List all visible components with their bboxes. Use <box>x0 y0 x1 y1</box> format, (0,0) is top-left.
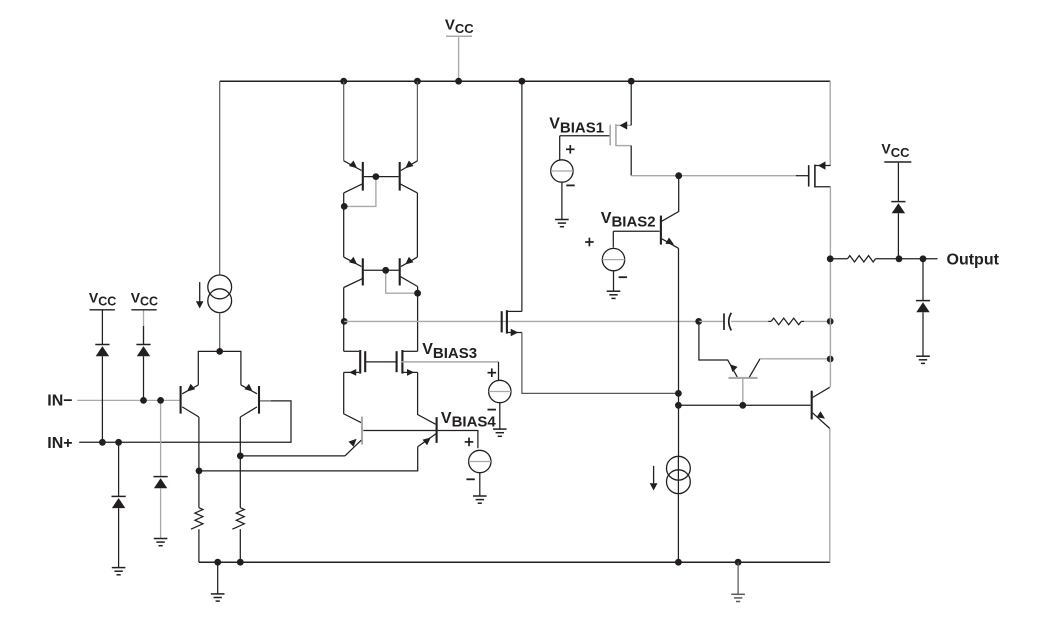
transistor Q1 (PNP input left) <box>180 386 182 414</box>
current source I2 <box>667 456 691 480</box>
wire VBIAS2 base lead <box>613 230 659 232</box>
wire Q9 emitter column <box>678 248 680 456</box>
mosfet M5 (output PMOS) <box>808 165 810 187</box>
mosfet M3 (cascode right) <box>402 350 417 352</box>
wire base drive to Q11 <box>678 404 810 406</box>
wire M1 drain to rail <box>521 81 523 311</box>
wire VS1 to ground <box>561 182 563 219</box>
wire Q6 collector column <box>417 287 419 352</box>
junction dot rail x343 <box>340 78 347 85</box>
svg-text:IN+: IN+ <box>47 435 72 452</box>
wire second-stage gate net (gray) <box>344 320 699 322</box>
plus sign VBIAS2 <box>585 238 594 247</box>
wire gnd1 stub <box>217 562 219 594</box>
junction dot rail x522 <box>519 78 526 85</box>
junction dot left column jog <box>341 203 348 210</box>
wire R2 to rail <box>239 529 241 562</box>
resistor R1 <box>191 508 203 529</box>
wire Q10 emitter to comp tap <box>699 321 737 377</box>
wire upper base jog (gray) <box>345 177 376 207</box>
wire Q2 collector column <box>239 417 241 508</box>
wire D4 to ground <box>118 508 120 567</box>
svg-text:IN−: IN− <box>47 393 72 410</box>
junction dot rail I2 <box>675 559 682 566</box>
wire lower base jog (gray) <box>386 270 418 293</box>
diode D2 (Vcc B) <box>136 344 150 346</box>
junction dot x742 y405 <box>739 402 746 409</box>
junction dot upper base <box>373 173 380 180</box>
junction dot x830 y359 <box>827 356 834 363</box>
wire right mirror column <box>416 193 418 257</box>
wire M4 source down <box>630 146 632 176</box>
junction dot rail gnd1 <box>214 559 221 566</box>
junction dot lower base <box>382 267 389 274</box>
junction dot rail gnd2 <box>735 559 742 566</box>
wire D1 to IN+ <box>101 356 103 442</box>
minus sign VBIAS2 <box>619 276 627 278</box>
voltage source VS2 (VBIAS2) <box>602 248 624 270</box>
wire Q4 emitter column <box>416 81 418 161</box>
wire VS3 to ground <box>499 403 501 429</box>
junction dot rail x631 <box>628 78 635 85</box>
junction dot IN- x143 <box>140 397 147 404</box>
junction dot output column <box>827 255 834 262</box>
wire Q1 collector column <box>198 417 200 508</box>
wire IN+ clamp column D <box>118 442 120 496</box>
wire M5 gate lead <box>796 175 808 177</box>
transistor Q11 (output NPN) <box>811 391 813 420</box>
transistor Q7 (left, gray bar) <box>361 417 363 445</box>
wire Vcc B column <box>143 311 145 345</box>
plus sign VBIAS1 <box>566 145 575 154</box>
voltage source VS3 (VBIAS3) <box>489 380 511 402</box>
capacitor C1 <box>723 313 725 330</box>
transistor Q10 (rotated, gray bar) <box>729 377 758 379</box>
wire M3 source down <box>418 372 436 424</box>
wire base stub Q2 <box>259 400 271 402</box>
diode D4 (IN+ clamp) <box>112 495 126 497</box>
resistor R3 (comp) <box>768 320 771 322</box>
voltage source VS4 (VBIAS4) <box>469 450 491 472</box>
transistor Q5 (PNP mirror lower-left) <box>362 258 364 285</box>
ground (VS1) <box>555 220 569 227</box>
wire Q8 emitter link <box>199 447 418 471</box>
junction dot second-stage tap <box>341 318 348 325</box>
wire I1 to tail node <box>219 313 221 352</box>
node tail dot <box>216 348 223 355</box>
wire output line left <box>830 258 847 260</box>
wire rail corner down to current source I1 <box>219 81 221 275</box>
transistor Q9 (NPN VBIAS2) <box>660 216 662 245</box>
ground (VS3) <box>493 429 507 436</box>
wire VS4 to ground <box>479 473 481 496</box>
transistor Q2 (PNP input right) <box>258 386 260 414</box>
junction dot IN+ x102 <box>99 439 106 446</box>
minus sign VBIAS1 <box>566 184 574 186</box>
wire Q10 collector to output column (gray) <box>760 358 830 360</box>
junction dot x830 comp <box>827 318 834 325</box>
wire Q3 emitter column <box>343 81 345 161</box>
junction dot x678 y393 <box>675 390 682 397</box>
ground (D3) <box>154 539 168 546</box>
svg-text:Output: Output <box>947 251 1000 268</box>
wire Q10 base stub (gray) <box>742 378 744 405</box>
ground (D6) <box>916 356 930 363</box>
plus sign VBIAS3 <box>488 368 497 377</box>
wire M5 drain column (gray) <box>829 187 831 388</box>
wire D6 to ground <box>922 312 924 356</box>
wire IN- clamp column C <box>160 400 162 476</box>
wire M1 source to I2 node <box>522 333 679 394</box>
junction dot Q2 collector <box>237 453 244 460</box>
mosfet M4 (VBIAS1 PMOS, gray) <box>609 125 611 146</box>
voltage source VS1 (VBIAS1) <box>551 160 573 182</box>
wire Q5 collector column <box>343 288 345 352</box>
wire rail corner to M5 (gray) <box>829 81 831 165</box>
junction dot IN- x160 <box>157 397 164 404</box>
diode D3 (IN- clamp) <box>154 476 168 478</box>
junction dot x679 y175 <box>675 172 682 179</box>
junction dot Q1 collector <box>196 468 203 475</box>
wire gate link to VBIAS3 source (gray) <box>401 361 499 363</box>
resistor R2 <box>232 508 244 529</box>
wire VS2 to ground <box>613 271 615 291</box>
ground rail (bottom) <box>199 561 830 563</box>
wire VBIAS1 gate lead <box>560 135 610 137</box>
wire VBIAS3 corner down <box>498 362 500 380</box>
transistor Q8 (right) <box>436 417 438 443</box>
junction dot x678 y405 <box>675 402 682 409</box>
junction dot rail R2 <box>237 559 244 566</box>
minus sign VBIAS3 <box>488 409 496 411</box>
minus sign VBIAS4 <box>466 478 474 480</box>
wire output to D6 <box>922 259 924 301</box>
wire Vcc to D5 <box>897 163 899 202</box>
junction dot rail x417 <box>414 78 421 85</box>
wire VBIAS2 corner down <box>612 231 614 247</box>
diode D6 (output clamp to gnd) <box>916 300 930 302</box>
ground (VS4) <box>473 496 487 503</box>
wire Q11 emitter to rail (gray) <box>829 429 831 563</box>
wire R3 to output column (gray) <box>804 320 830 322</box>
wire R1 to rail <box>198 529 200 562</box>
wire M4 drain up to rail <box>630 81 632 125</box>
wire output line right <box>876 258 938 260</box>
wire D2 to IN- <box>143 356 145 400</box>
junction dot comp tap <box>695 318 702 325</box>
wire VBIAS1 corner down <box>559 136 561 160</box>
wire Q7 emitter link <box>240 455 345 457</box>
wire Vcc A column <box>101 311 103 345</box>
ground (rail left) <box>211 594 225 601</box>
mosfet M2 (cascode left) <box>344 350 359 352</box>
junction dot output D6 <box>920 255 927 262</box>
wire M4 to M5 gate (gray) <box>631 175 796 177</box>
wire Q5/Q6 base link <box>364 269 399 271</box>
diode D5 (output clamp to Vcc) <box>891 201 905 203</box>
junction dot rail Vcc <box>455 78 462 85</box>
diode D1 (Vcc A) <box>95 344 109 346</box>
wire Vcc stub to rail <box>458 37 460 81</box>
transistor Q4 (PNP mirror upper-right) <box>399 162 401 191</box>
wire M2/M3 gate link <box>365 361 396 363</box>
wire IN- line <box>77 399 179 401</box>
current source I1 (input tail) <box>208 275 232 299</box>
ground (D4) <box>112 568 126 575</box>
Vcc power rail (top) <box>220 80 831 82</box>
mosfet M1 (second stage) <box>501 311 503 332</box>
junction dot IN+ x118 <box>115 439 122 446</box>
wire emitter tail box <box>198 351 241 385</box>
wire D3 to ground <box>160 488 162 538</box>
plus sign VBIAS4 <box>465 438 474 447</box>
ground (VS2) <box>607 291 621 298</box>
wire gnd2 stub <box>737 562 739 594</box>
wire left mirror column <box>343 193 345 257</box>
ground (rail right) <box>731 594 745 601</box>
wire IN+ line <box>79 401 291 442</box>
wire I2 to rail <box>677 456 679 562</box>
wire C1 to R3 (gray) <box>731 320 768 322</box>
junction dot right column jog <box>414 290 421 297</box>
transistor Q6 (PNP mirror lower-right) <box>399 258 401 285</box>
wire Q7/Q8 base line <box>363 431 478 449</box>
resistor R4 (output) <box>848 256 876 262</box>
wire M2 source down <box>344 372 362 422</box>
wire comp lead (gray) <box>699 320 724 322</box>
wire Q3/Q4 base link <box>364 176 399 178</box>
transistor Q3 (PNP mirror upper-left) <box>362 162 364 191</box>
junction dot output D5 <box>896 255 903 262</box>
wire Q9 collector <box>662 176 679 222</box>
wire D5 to output <box>897 213 899 258</box>
